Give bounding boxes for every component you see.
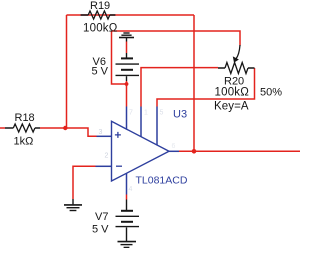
value 5 V (V7) [92, 224, 109, 236]
node junction R18/R19 [63, 126, 67, 130]
value 5 V (V6) [92, 66, 109, 78]
pin number 2 [105, 153, 109, 160]
ground above V6 (inverted) [119, 33, 134, 42]
ground below V7 [118, 242, 137, 248]
label R20 [224, 75, 244, 87]
svg-text:U3: U3 [173, 109, 187, 121]
pin stub minus input [96, 165, 112, 167]
label U3 [173, 109, 187, 121]
ground at minus input [64, 199, 82, 211]
pin number 5 [160, 110, 164, 117]
svg-text:50%: 50% [260, 86, 282, 98]
pin number 3 [99, 129, 103, 136]
svg-text:5 V: 5 V [92, 224, 109, 236]
pin stub bottom [126, 173, 128, 194]
setting 50% [260, 86, 282, 98]
wire op-amp bottom pin to V7 [126, 195, 128, 200]
wire wiper horizontal [112, 31, 241, 46]
pin stub top 2 [140, 107, 142, 137]
svg-text:V7: V7 [95, 211, 108, 223]
svg-text:5: 5 [160, 110, 164, 117]
key label Key=A [214, 101, 249, 113]
svg-text:5 V: 5 V [92, 66, 109, 78]
part name TL081ACD [136, 175, 188, 187]
svg-text:7: 7 [129, 110, 133, 117]
svg-text:Key=A: Key=A [214, 101, 249, 113]
value 1kohm R18 [14, 136, 34, 148]
minus sign [116, 165, 122, 167]
label R18 [15, 112, 35, 124]
wire R18 left stub [0, 127, 5, 129]
op-amp U1 triangle [112, 121, 170, 181]
svg-text:6: 6 [172, 143, 176, 150]
resistor R19 [81, 11, 116, 19]
svg-text:R19: R19 [90, 0, 110, 12]
node junction output [192, 149, 197, 154]
wire top feedback horizontal [67, 14, 195, 16]
svg-text:2: 2 [105, 153, 109, 160]
svg-text:3: 3 [99, 129, 103, 136]
pin stub plus input [97, 135, 112, 137]
wire R20 right to op-amp top pin [157, 68, 255, 107]
battery V7 [116, 200, 140, 242]
wire R18 to op-amp plus input [40, 128, 97, 136]
svg-text:4: 4 [129, 186, 133, 193]
wire minus input to ground [73, 166, 96, 199]
wire V6 bottom to op-amp top pin [126, 81, 128, 107]
wire left feedback vertical [66, 15, 68, 128]
potentiometer R20 [218, 63, 255, 74]
wire R20 left to op-amp top pin [141, 68, 218, 107]
svg-text:R18: R18 [15, 112, 35, 124]
node junction V6 bottom [125, 82, 129, 86]
wire output [179, 150, 300, 152]
svg-text:100kΩ: 100kΩ [215, 86, 250, 98]
value 100kohm R20 [215, 86, 250, 98]
resistor R18 [5, 124, 40, 132]
pin number 1 [144, 110, 148, 117]
value 100kohm R19 [83, 23, 118, 35]
label R19 [90, 0, 110, 12]
wire feedback vertical to output [193, 15, 195, 151]
wiper arrow R20 [233, 45, 240, 63]
label V6 [93, 56, 106, 68]
svg-text:1kΩ: 1kΩ [14, 136, 34, 148]
pin stub output [169, 150, 179, 152]
pin number 7 [129, 110, 133, 117]
battery V6 [116, 53, 140, 81]
svg-text:100kΩ: 100kΩ [83, 23, 118, 35]
wire ground to V6 top [126, 42, 128, 54]
pin stub top 1 [126, 107, 128, 130]
pin number 4 [129, 186, 133, 193]
label V7 [95, 211, 108, 223]
svg-text:1: 1 [144, 110, 148, 117]
plus sign [115, 132, 121, 138]
pin number 6 [172, 143, 176, 150]
wire wiper vertical to battery junction [112, 31, 127, 84]
svg-text:TL081ACD: TL081ACD [136, 175, 188, 187]
pin stub top 3 [156, 107, 158, 146]
